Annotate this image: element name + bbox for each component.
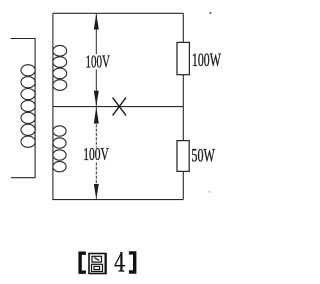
svg-text:100W: 100W (192, 50, 221, 71)
svg-text:100V: 100V (86, 52, 111, 72)
svg-text:50W: 50W (191, 146, 215, 167)
svg-text:100V: 100V (83, 144, 109, 164)
